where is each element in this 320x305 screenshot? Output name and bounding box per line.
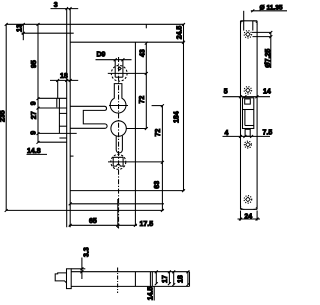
line M1 (plate lip) <box>22 32 74 34</box>
svg-text:3: 3 <box>54 2 58 9</box>
svg-text:3.3: 3.3 <box>84 247 91 257</box>
keyhole 2 (bulb up, stem down) <box>111 121 126 136</box>
svg-text:9: 9 <box>31 101 38 105</box>
svg-text:27: 27 <box>31 111 38 119</box>
rounded corner arcs (dashed) <box>241 21 245 25</box>
dashed centerline <box>117 268 119 294</box>
keyhole centerline extension to bottom <box>117 199 119 228</box>
top reference line (faceplate top) <box>6 23 184 25</box>
case bottom lines <box>70 190 184 192</box>
case body <box>71 271 189 273</box>
fork follower <box>70 106 107 128</box>
svg-text:14: 14 <box>263 89 271 96</box>
dimension L2 (65 / 17.5) <box>69 224 137 226</box>
case top edge <box>70 41 184 43</box>
faceplate edge (two vertical lines) <box>66 9 68 228</box>
dimension 3 (faceplate thickness) top <box>51 8 79 10</box>
dimension 13 <box>22 24 24 40</box>
svg-text:43: 43 <box>140 49 147 57</box>
svg-text:63: 63 <box>154 181 161 189</box>
keyhole 1 (stem up, bulb down) <box>110 84 126 113</box>
svg-text:18: 18 <box>60 73 68 80</box>
svg-text:7.5: 7.5 <box>263 130 273 137</box>
cover plate edge <box>134 42 136 225</box>
svg-text:24.5: 24.5 <box>177 26 184 40</box>
svg-text:D9: D9 <box>97 52 106 59</box>
faceplate lip line lower <box>70 155 73 157</box>
svg-text:Ø7.25: Ø7.25 <box>265 49 272 68</box>
top hub hole: slot + circle <box>114 60 116 77</box>
svg-text:5: 5 <box>224 89 228 96</box>
dimension line A (43 / 72) <box>145 24 147 28</box>
latch bolt body details <box>56 98 58 107</box>
svg-text:Ø 11.35: Ø 11.35 <box>260 5 283 12</box>
svg-text:17.5: 17.5 <box>140 221 154 228</box>
svg-text:14.5: 14.5 <box>148 287 155 301</box>
faceplate bar <box>67 269 72 289</box>
svg-text:4: 4 <box>225 130 229 137</box>
svg-text:72: 72 <box>139 96 146 104</box>
latch bolt <box>55 273 66 283</box>
screw holes <box>244 31 251 38</box>
svg-text:65: 65 <box>89 218 97 225</box>
latch bevel divider <box>243 109 254 111</box>
svg-text:235: 235 <box>0 110 7 122</box>
dimension 3.3 <box>71 268 85 270</box>
dia 11.35 dimension <box>243 11 245 31</box>
svg-text:9: 9 <box>31 131 38 135</box>
bottom long reference line L1 <box>6 209 163 211</box>
svg-text:17: 17 <box>162 275 169 283</box>
latch bolt chain lines <box>38 97 67 99</box>
dimension 24 (plate width) <box>240 211 242 221</box>
svg-text:95: 95 <box>31 60 38 68</box>
dimension 5 / 14 <box>223 96 271 98</box>
auxiliary bolt cutout <box>245 129 250 136</box>
bottom circle with square <box>111 154 126 169</box>
dimension 18 <box>173 272 175 285</box>
svg-text:18: 18 <box>178 275 185 283</box>
dimension 17 <box>155 272 157 284</box>
dimension 14.5 <box>153 286 155 300</box>
dia 7.25 dimension <box>252 31 271 33</box>
latch head in cutout <box>245 99 251 104</box>
dimension line C (24.5 / 184) <box>183 24 185 190</box>
internal divider <box>134 272 136 287</box>
dimension 235 (overall, left edge) <box>5 24 7 210</box>
svg-text:184: 184 <box>174 111 181 123</box>
dimension 4 / 7.5 <box>223 135 271 137</box>
plate outline <box>240 21 242 210</box>
svg-text:13: 13 <box>17 24 24 32</box>
D9 dimension over top hole <box>96 59 132 61</box>
svg-text:24: 24 <box>244 214 252 221</box>
svg-text:72: 72 <box>155 129 162 137</box>
dimension line B (72 / 63) <box>161 106 163 211</box>
dimension 18 (near faceplate) <box>50 79 78 81</box>
keyhole column centerline <box>118 57 120 229</box>
latch cutout in plate <box>243 98 254 129</box>
dimension line 95 / 9 / 27 / 9 <box>37 24 39 142</box>
